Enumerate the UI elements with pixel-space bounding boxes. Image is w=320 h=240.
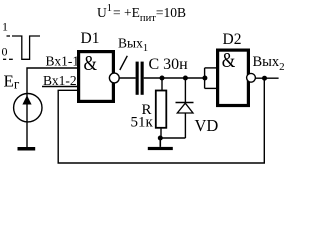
svg-text:Вх1-2: Вх1-2	[43, 73, 77, 88]
svg-text:0: 0	[2, 45, 8, 59]
current source arrow	[22, 95, 31, 104]
svg-text:VD: VD	[195, 116, 219, 135]
wire: capacitor to D2 input node	[144, 77, 205, 79]
wire: D2 output Vykh2	[256, 77, 279, 79]
svg-text:&: &	[84, 51, 98, 75]
ground below Eg	[18, 147, 36, 151]
svg-text:1: 1	[2, 20, 8, 34]
junction node at VD top	[183, 76, 188, 81]
input pulse waveform annotation	[3, 36, 40, 59]
svg-text:&: &	[222, 48, 236, 72]
gate D2 output inversion bubble	[247, 73, 256, 82]
wire: node down to diode VD cathode	[184, 78, 186, 103]
junction node on output feedback	[262, 76, 267, 81]
capacitor C plate 2	[141, 62, 144, 95]
capacitor C plate 1	[136, 62, 139, 95]
gate D1 output inversion bubble	[109, 73, 119, 83]
wire: D1 output to capacitor	[119, 77, 136, 79]
junction node at R top	[160, 76, 165, 81]
svg-text:Вх1-1: Вх1-1	[46, 54, 80, 69]
wires: D2 tied inputs	[205, 68, 217, 89]
current source Eg circle	[14, 94, 42, 122]
junction node at R bottom	[158, 136, 163, 141]
wire: node down to resistor R	[161, 78, 163, 91]
wire: R bottom to ground junction	[160, 128, 162, 138]
resistor R body	[156, 91, 167, 128]
svg-text:D2: D2	[223, 31, 242, 48]
wire: VD anode down to bottom wire	[184, 113, 186, 138]
pointer line from Vykh1 label to output node	[120, 56, 128, 70]
diode VD cathode bar	[176, 102, 194, 104]
wire: R bottom junction to VD anode	[160, 137, 185, 139]
op-amp gate D1 (NAND) body	[79, 52, 114, 102]
svg-text:51к: 51к	[131, 115, 154, 131]
diode VD triangle	[177, 103, 193, 113]
wire: feedback into D1 lower input	[58, 78, 264, 163]
op-amp gate D2 (NAND) body	[218, 50, 249, 105]
wire: Eg to D1 input 1	[27, 68, 78, 147]
svg-text:C 30н: C 30н	[149, 56, 189, 73]
wire: Vkh1-2 stub into D1 input 2	[42, 86, 78, 88]
ground below R	[159, 138, 161, 147]
junction node at D2 input	[202, 76, 207, 81]
svg-text:D1: D1	[81, 30, 100, 47]
